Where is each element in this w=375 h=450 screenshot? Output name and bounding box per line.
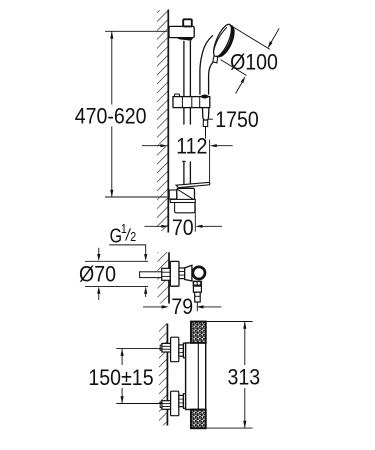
lower hex nut end cap: [160, 402, 162, 407]
bottom bracket wall box: [169, 190, 177, 199]
upper hex nut end cap: [160, 345, 162, 350]
elbow circle: [193, 267, 205, 279]
handle cone below holder: [202, 108, 209, 121]
svg-text:Ø100: Ø100: [230, 50, 278, 75]
bottom bracket arm: [176, 182, 210, 187]
wall line (bottom figure): [166, 324, 168, 426]
top bracket of rail: [169, 26, 194, 37]
hand shower handle outer edge: [200, 35, 213, 94]
dim 470-620 vertical line with arrows: [111, 31, 113, 104]
shower head face plate outline: [210, 22, 235, 59]
upper union nut: [183, 343, 187, 358]
hose stub: [205, 127, 207, 139]
rail segment (bracket to holder): [183, 41, 185, 96]
bracket shadow wedge: [176, 38, 193, 41]
wall hatch (bottom figure): [159, 324, 168, 426]
dim 313 vertical line with arrows: [244, 322, 246, 366]
dim Ø100 upper arrow: [268, 41, 273, 48]
thermostat body: [186, 343, 206, 410]
rail segment (break to bottom bracket): [183, 161, 185, 185]
handle shadow in holder: [200, 95, 209, 99]
dim 470-620 extension line bottom: [105, 196, 167, 198]
dim Ø100 lower arrow: [241, 76, 246, 83]
dim 79 extension line: [196, 302, 198, 311]
svg-text:313: 313: [227, 365, 260, 390]
wall line (middle figure): [168, 252, 170, 303]
svg-text:79: 79: [171, 295, 193, 320]
svg-text:70: 70: [172, 216, 194, 241]
holder clamp tab: [175, 94, 180, 97]
upper hex nut: [162, 343, 171, 352]
svg-text:1: 1: [121, 222, 127, 236]
bottom handle knob (stippled): [191, 410, 206, 429]
dim Ø100 extension line upper: [234, 27, 270, 49]
svg-text:2: 2: [130, 230, 136, 244]
dim 70 left arrow: [145, 225, 163, 227]
lower escutcheon: [171, 391, 179, 416]
upper hex connector: [179, 345, 184, 356]
1750 label tick: [208, 118, 213, 120]
lower hex connector: [179, 395, 184, 406]
svg-text:Ø70: Ø70: [79, 262, 116, 287]
bottom bracket diagonal: [178, 189, 194, 199]
top handle knob (stippled): [191, 322, 206, 343]
dim Ø100 extension line lower: [221, 60, 247, 76]
bottom bracket plate: [170, 199, 195, 202]
wall line (top figure): [167, 10, 169, 233]
svg-text:1750: 1750: [215, 108, 259, 133]
shower head face dark band: [216, 25, 235, 57]
dim 470-620 extension line top: [105, 30, 167, 32]
dim 79 left arrow: [143, 306, 162, 308]
lower union nut: [183, 394, 187, 409]
svg-text:112: 112: [176, 134, 207, 159]
knob on top of bracket: [183, 19, 192, 26]
dim Ø70 arrows: [98, 248, 100, 255]
hose connector tube: [195, 292, 201, 302]
svg-text:150±15: 150±15: [88, 366, 153, 391]
rail segment (holder to break): [183, 108, 185, 125]
hex connector: [179, 268, 185, 279]
escutcheon: [170, 261, 179, 286]
dim 112 extension line: [209, 140, 211, 186]
hex nut at wall: [162, 268, 171, 280]
G 1/2 leader arrows: [145, 245, 147, 255]
dim 79 right arrow: [196, 305, 203, 308]
dim 150±15 vertical line with arrows: [121, 349, 123, 365]
upper escutcheon: [171, 337, 179, 362]
dim 70 extension line: [194, 204, 196, 232]
wall hatch (middle figure): [158, 252, 169, 304]
dim 313 extension lines: [206, 321, 253, 323]
dim 70 right arrow: [195, 225, 202, 228]
wall hatch (top figure): [157, 10, 168, 231]
lower hex nut: [162, 401, 171, 410]
hose nut: [203, 120, 207, 126]
dim 150±15 extension lines: [116, 348, 162, 350]
shower head rim line: [213, 27, 226, 52]
knurled hose nut: [193, 281, 203, 287]
dim 112 left arrow: [142, 145, 161, 147]
dim 112 right arrow: [210, 144, 217, 147]
hose connector cylinder: [193, 286, 201, 292]
outlet tube below plate: [175, 203, 195, 213]
inlet pipe into wall: [140, 272, 162, 278]
bottom bracket main box: [177, 188, 195, 200]
hand shower handle inner edge: [209, 62, 214, 95]
dim Ø70 extension lines: [85, 260, 148, 262]
svg-text:470-620: 470-620: [75, 104, 147, 129]
tapered union nut: [185, 265, 192, 281]
holder divider lines: [181, 97, 183, 108]
body inner line: [197, 343, 199, 410]
face bottom tab: [213, 56, 218, 63]
holder (glider) body: [173, 97, 210, 108]
